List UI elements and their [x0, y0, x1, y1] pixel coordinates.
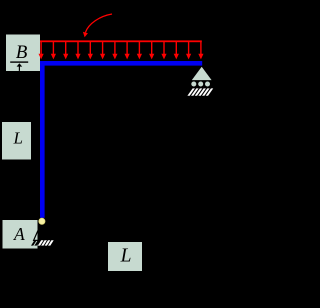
- svg-text:L: L: [120, 246, 132, 267]
- svg-text:A: A: [13, 224, 25, 244]
- svg-text:B: B: [16, 42, 28, 63]
- svg-text:L: L: [12, 129, 22, 148]
